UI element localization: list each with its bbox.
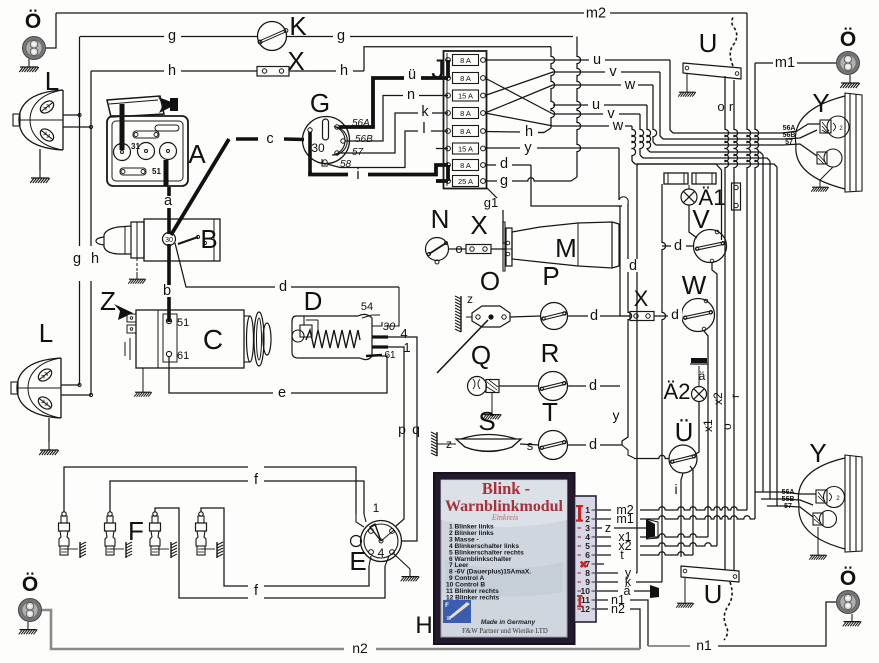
svg-text:P: P	[542, 261, 559, 291]
svg-text:S: S	[478, 406, 495, 436]
indicator lamp A1	[681, 189, 697, 205]
fuse 6 15A	[453, 143, 479, 154]
svg-text:o: o	[720, 423, 734, 430]
gauge P	[541, 303, 568, 330]
indicator lamp A2	[692, 387, 707, 402]
vertical bus m1 from horn	[755, 63, 759, 519]
svg-text:y: y	[613, 407, 620, 423]
distributor E terminals	[369, 529, 374, 534]
wire from A2 to Ue	[694, 402, 699, 455]
svg-text:4: 4	[378, 546, 385, 560]
wire d from R	[568, 385, 587, 387]
svg-text:Einkreis: Einkreis	[491, 513, 518, 522]
connector block 2	[692, 173, 716, 184]
fuse box J outline	[444, 51, 487, 189]
bundle row 56B to lamp Y1	[663, 138, 783, 140]
Y2 bulb 2	[820, 511, 837, 528]
regulator A terminals	[114, 144, 131, 161]
Y2 bulb 1	[824, 487, 845, 508]
wire p from coil 1 down to distributor	[388, 347, 404, 526]
svg-text:30: 30	[311, 141, 325, 155]
svg-text:n: n	[407, 87, 415, 103]
vertical wire g-net down to fuse 8	[577, 37, 581, 178]
ground for L top	[39, 149, 41, 170]
ground plug F1	[64, 548, 78, 550]
svg-text:31: 31	[131, 142, 140, 151]
svg-text:R: R	[541, 338, 560, 368]
svg-text:F: F	[128, 516, 144, 546]
mass stub above A2	[690, 363, 708, 365]
svg-text:d: d	[500, 156, 508, 172]
connector X at W	[630, 312, 654, 321]
svg-text:V: V	[692, 204, 710, 234]
svg-text:d: d	[589, 378, 597, 394]
svg-text:58: 58	[340, 159, 352, 170]
wire d from fuse 7	[485, 164, 496, 166]
ground bottom-right horn	[843, 614, 862, 626]
vertical wire g to lamps L	[79, 37, 81, 247]
switch Ue	[669, 445, 697, 473]
mass wedge for z	[646, 519, 655, 539]
bold link fuse7-fuse8 left	[446, 165, 450, 181]
connector block 1	[664, 173, 688, 184]
svg-text:O: O	[480, 266, 500, 296]
svg-text:51: 51	[152, 167, 161, 176]
wire v2 row	[553, 113, 603, 115]
horn Oe bottom-left	[19, 599, 42, 622]
module pin wire x2	[597, 545, 611, 547]
svg-text:51: 51	[177, 317, 189, 329]
ground plug F2	[110, 548, 124, 550]
bundle row 56A to lamp Y1	[673, 132, 783, 134]
connector X horn	[466, 245, 491, 254]
dynamo C body	[136, 310, 244, 368]
ground for top-left horn	[19, 59, 39, 72]
svg-text:H: H	[415, 612, 432, 639]
headlamp L left-bottom	[17, 358, 61, 418]
wire o from U down	[725, 76, 729, 570]
svg-text:d: d	[671, 306, 679, 322]
wire v1 corner down	[659, 72, 661, 136]
wire q from coil 4 down to distributor	[388, 337, 417, 541]
wire d vertical bus upper	[619, 206, 621, 316]
wire m2 top run	[56, 12, 584, 14]
svg-text:g: g	[73, 251, 81, 267]
wire h top run with connector X	[91, 70, 257, 72]
ground bottom-left horn	[19, 622, 38, 634]
bundle row to right lamp feed 3	[635, 164, 777, 167]
coil D primary zigzag	[306, 330, 360, 348]
ground for dynamo C	[142, 368, 144, 385]
svg-text:w: w	[624, 77, 636, 93]
module pin wire m2	[597, 509, 611, 511]
coil D contact detail	[300, 325, 312, 337]
vertical feed to Y2 56B	[769, 161, 771, 499]
module H red I marks	[576, 505, 583, 522]
antenna whip dashed bottom	[724, 582, 732, 640]
svg-text:m1: m1	[616, 512, 633, 526]
svg-text:8 A: 8 A	[460, 109, 471, 118]
bundle row 57 to lamp Y1	[656, 144, 783, 146]
module pin wire t	[597, 554, 611, 556]
wire w1 row	[553, 84, 621, 86]
svg-text:30: 30	[165, 237, 173, 244]
mounting plate above regulator A	[107, 96, 164, 117]
headlamp L left-top	[19, 90, 63, 150]
svg-text:U: U	[699, 28, 718, 58]
svg-text:L: L	[45, 66, 59, 96]
black arrow at plate	[158, 97, 177, 113]
module H outer frame	[434, 473, 575, 644]
spark plug F2	[108, 512, 112, 516]
module pin wire x1	[597, 536, 611, 538]
svg-text:b: b	[163, 283, 171, 299]
svg-text:g: g	[337, 28, 345, 44]
svg-text:C: C	[203, 324, 223, 355]
connector bar U top	[683, 63, 741, 79]
spark plug F1	[62, 512, 66, 516]
regulator A straps	[133, 131, 159, 138]
svg-text:a: a	[164, 193, 173, 209]
wire Q to R	[499, 385, 539, 387]
svg-text:E: E	[349, 546, 366, 576]
svg-text:d: d	[629, 258, 637, 274]
wire d from starter 30 to coil	[175, 243, 399, 287]
svg-text:p: p	[398, 421, 406, 437]
headlamp Y bottom dome	[798, 458, 845, 549]
svg-text:h: h	[340, 63, 348, 79]
wire w2 row	[553, 125, 609, 127]
module H pin strip	[575, 496, 597, 622]
svg-text:Z: Z	[100, 286, 116, 316]
svg-text:T: T	[542, 397, 558, 427]
connector bar U bottom	[681, 566, 739, 582]
module pin 7 empty	[597, 563, 604, 565]
indicator bulb Q	[468, 377, 487, 396]
Y2 fan wires	[755, 492, 816, 494]
Y1 terminal fan wires	[783, 124, 820, 133]
svg-text:r: r	[729, 99, 734, 114]
ground for Y2	[817, 527, 819, 548]
diag fuse4 to w1	[485, 85, 553, 113]
wire k from G 57 to fuse 4	[339, 113, 418, 153]
ground plug F3	[155, 548, 169, 550]
ground for distributor	[394, 554, 410, 569]
fuse 2 8A	[453, 73, 479, 84]
svg-text:8 A: 8 A	[460, 56, 471, 65]
coil D terminal 54	[362, 315, 380, 318]
svg-text:U: U	[704, 579, 723, 609]
stub wires from bottom L	[61, 384, 80, 386]
wire from A1 down to gauge V	[689, 205, 697, 238]
wire f plug2 to distributor	[110, 481, 248, 512]
svg-text:15 A: 15 A	[458, 144, 473, 153]
wire a-umlaut above A2	[698, 366, 700, 387]
module pin wire a-umlaut to wedge	[597, 590, 618, 592]
svg-text:d: d	[674, 238, 682, 254]
module pin wire z to mass wedge	[597, 527, 602, 529]
distributor E side capacitor	[351, 536, 362, 547]
label g1 and wire to horn M	[487, 188, 497, 198]
vertical bus m2	[746, 13, 748, 128]
wire s from S to T	[520, 444, 539, 445]
vertical wire h-net down to fuse 5	[551, 47, 555, 128]
gauge V	[694, 230, 727, 263]
starter B solenoid lever	[178, 237, 198, 244]
wire from T junction to Ue with bump	[622, 445, 634, 458]
wire r from U down	[734, 80, 738, 571]
wire d down and over	[531, 165, 622, 206]
wire f plug1 to distributor	[64, 467, 248, 512]
svg-text:k: k	[421, 104, 429, 120]
wire w2 corner down	[632, 126, 636, 161]
wire y link R to T	[622, 386, 628, 445]
svg-text:g: g	[168, 28, 176, 44]
horn Oe bottom-right	[837, 591, 860, 614]
wire from horn to m2	[45, 13, 56, 48]
svg-text:Q: Q	[471, 340, 491, 370]
svg-text:c: c	[266, 131, 273, 147]
ignition switch G	[303, 117, 350, 164]
svg-text:M: M	[555, 233, 577, 263]
wire u2 row	[553, 104, 588, 106]
svg-text:Blink -: Blink -	[482, 479, 530, 498]
svg-text:v: v	[609, 64, 617, 80]
wire n2 from bottom-left horn	[42, 610, 344, 649]
Y1 bulb 1	[827, 116, 849, 138]
fuse 4 8A	[453, 108, 479, 119]
ground for bulb Q	[491, 393, 493, 408]
ground for starter B	[137, 257, 144, 259]
module H blue logo	[443, 600, 471, 623]
svg-text:61: 61	[177, 350, 189, 362]
wire f plug4 to distributor	[201, 508, 248, 586]
wire X to horn M	[491, 248, 506, 250]
coil D terminal 1 bold	[372, 345, 388, 348]
oil switch O	[472, 306, 510, 327]
bold wire i from G to fuse 7	[310, 171, 348, 175]
svg-text:Ö: Ö	[840, 28, 856, 51]
vertical feed to Y2 56A	[762, 155, 764, 492]
horn M	[506, 228, 512, 266]
svg-text:K: K	[289, 11, 307, 41]
svg-text:ü: ü	[408, 67, 416, 83]
svg-text:G: G	[310, 88, 330, 118]
ground for U bottom	[684, 577, 686, 596]
svg-text:J: J	[431, 54, 445, 84]
svg-text:61: 61	[384, 350, 396, 361]
svg-text:z: z	[467, 292, 473, 306]
wire d stub to V	[662, 245, 694, 247]
module pin wire k	[597, 581, 618, 583]
svg-text:d: d	[279, 279, 287, 295]
ballast resistor box right	[732, 183, 741, 210]
starter B terminal 30	[163, 233, 176, 246]
bold wire b from starter to dynamo	[167, 244, 171, 285]
module pin wire n1	[597, 599, 608, 601]
wires into distributor towers	[356, 514, 364, 527]
hatched wall z for oil switch O	[455, 296, 461, 332]
module pin wire n2	[597, 608, 608, 610]
starter B body	[144, 219, 220, 261]
ground plug F4	[201, 548, 215, 550]
svg-text:h: h	[525, 124, 533, 140]
gauge W	[682, 299, 715, 332]
svg-text:x1: x1	[701, 419, 715, 432]
svg-text:B: B	[200, 224, 217, 254]
wire n1 to horn	[718, 602, 836, 646]
mass wedge for a-umlaut	[650, 585, 659, 598]
bundle row to right lamp feed 2	[643, 158, 770, 161]
wire o to connector X	[449, 248, 466, 250]
headlamp Y top-right dome	[795, 96, 845, 189]
wire u1 from fuse 1	[485, 59, 589, 61]
wire v1 row	[553, 71, 605, 73]
ignition coil D outline	[292, 314, 372, 359]
vertical feed to Y2 57	[776, 167, 778, 506]
svg-text:u: u	[592, 97, 600, 113]
svg-text:8 A: 8 A	[460, 74, 471, 83]
svg-text:W: W	[682, 270, 707, 300]
svg-text:Ö: Ö	[25, 10, 41, 33]
svg-text:X: X	[470, 210, 487, 240]
svg-text:w: w	[612, 118, 624, 134]
frame top V W column	[637, 163, 716, 165]
wire h from fuse 5	[485, 131, 520, 134]
svg-text:Ä2: Ä2	[664, 379, 691, 404]
hatched wall z for dome light S	[431, 432, 437, 456]
fuse box inner border	[446, 53, 448, 186]
svg-text:n2: n2	[352, 640, 368, 656]
svg-text:✖: ✖	[579, 560, 587, 571]
vertical wire h to lamps L	[90, 71, 92, 246]
starter B nose cone	[131, 222, 144, 258]
sender N	[426, 238, 449, 261]
svg-text:u: u	[593, 52, 601, 68]
fuse 5 8A	[453, 126, 479, 137]
bold wire 51 inside A going down	[164, 160, 169, 186]
stub at fuse 6 left	[436, 148, 448, 150]
svg-text:d: d	[590, 308, 598, 324]
ground top-right horn	[840, 75, 860, 88]
svg-text:N: N	[431, 204, 450, 234]
svg-text:W: W	[447, 616, 452, 622]
bold wire from plate into regulator A	[120, 104, 125, 150]
ground for U top	[686, 73, 688, 85]
Y1 bulb 2	[824, 149, 842, 167]
switch G key slot	[323, 119, 329, 140]
svg-text:30: 30	[383, 321, 396, 333]
svg-text:r: r	[728, 394, 742, 398]
fuse 7 8A	[453, 160, 479, 171]
svg-text:Ö: Ö	[22, 573, 38, 596]
antenna whip dashed top	[730, 16, 737, 66]
diag fuse4 to w2	[485, 113, 553, 126]
gauge R	[539, 372, 568, 401]
diag fuse2 to v2	[485, 78, 553, 114]
svg-text:g1: g1	[484, 195, 498, 210]
svg-text:h: h	[91, 251, 99, 267]
wire u1 corner down	[670, 60, 673, 133]
svg-text:o: o	[717, 99, 724, 114]
bold wire a from A to starter B	[167, 187, 171, 196]
switch G terminals	[308, 128, 312, 132]
bold link fuse1-fuse2 left	[446, 60, 450, 78]
ground for L bottom	[48, 418, 50, 442]
switch K	[258, 22, 287, 51]
fuse 1 8A	[453, 55, 479, 66]
coil D terminal 30 stub	[372, 322, 382, 326]
gauge T	[539, 431, 568, 460]
wire e from dynamo 61 to coil 61	[169, 357, 273, 393]
spark plug F3	[153, 512, 157, 516]
wire v2 corner down	[640, 114, 644, 155]
wire P to X and W	[568, 315, 588, 317]
spark plug F4	[199, 512, 203, 516]
svg-text:25 A: 25 A	[458, 177, 473, 186]
bold wire ue from G 56A to fuses	[339, 78, 404, 127]
diag fuse3 to v1	[485, 72, 553, 96]
svg-text:F: F	[445, 603, 449, 609]
svg-text:Ü: Ü	[675, 417, 694, 447]
ground for Y1	[820, 167, 833, 180]
svg-text:q: q	[412, 421, 420, 437]
switch G crescent	[332, 127, 347, 156]
svg-text:X: X	[287, 46, 304, 76]
svg-text:8 A: 8 A	[460, 161, 471, 170]
wire y from fuse 6	[485, 147, 520, 149]
wire f plug3 to distributor	[155, 508, 248, 598]
frame left vertical	[636, 164, 638, 573]
module pin wire y	[597, 572, 618, 574]
svg-text:D: D	[304, 286, 323, 316]
stub wires from L to g and h	[63, 114, 80, 116]
wire O to P	[510, 316, 540, 317]
svg-text:d: d	[589, 437, 597, 453]
wire from V d-stub down to X row	[662, 184, 666, 582]
svg-text:y: y	[524, 140, 532, 156]
frame bracket corner	[716, 164, 722, 240]
wire n1 grey segment	[648, 645, 690, 647]
module H red I mark pin11	[577, 595, 583, 607]
svg-text:m2: m2	[586, 6, 606, 22]
fuse 8 25A	[453, 176, 479, 187]
svg-text:Y: Y	[809, 438, 826, 468]
fuse 3 15A	[453, 90, 479, 101]
wire g from fuse 8	[485, 178, 566, 181]
svg-text:L: L	[39, 318, 53, 348]
svg-text:t: t	[620, 548, 624, 562]
dynamo C terminal plate	[163, 314, 177, 362]
dynamo C pulley	[247, 316, 254, 362]
svg-text:g: g	[500, 173, 508, 189]
module H paper label	[441, 480, 567, 637]
wire n from G 56B to fuse 3	[345, 96, 403, 142]
svg-text:l: l	[422, 121, 425, 137]
svg-text:i: i	[356, 167, 359, 183]
svg-text:A: A	[188, 139, 206, 169]
dynamo C small boxes left	[127, 314, 136, 322]
svg-text:F&W Partner und Wietike LTD: F&W Partner und Wietike LTD	[462, 628, 548, 635]
svg-text:n1: n1	[696, 637, 712, 653]
svg-text:m1: m1	[775, 55, 795, 71]
wire y down from row with bulge over d	[618, 148, 620, 200]
svg-text:n2: n2	[611, 602, 625, 616]
wire d into coil 30	[384, 287, 399, 326]
svg-text:o: o	[455, 241, 462, 256]
bold wire 30 down from G	[308, 132, 312, 171]
svg-text:x2: x2	[711, 392, 725, 405]
